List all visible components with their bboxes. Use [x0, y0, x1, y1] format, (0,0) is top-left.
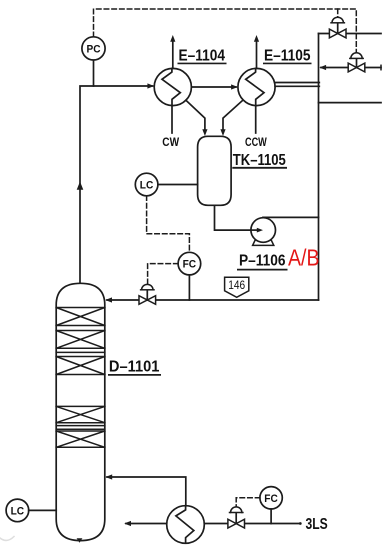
wire: reboiler liquid draw	[126, 523, 167, 525]
signal: PC to top valves (dashed)	[94, 9, 357, 53]
wire: E-1104 to E-1105	[191, 86, 236, 88]
controller FC (reflux)	[178, 252, 201, 275]
svg-text:TK–1105: TK–1105	[233, 152, 286, 169]
svg-text:CW: CW	[162, 137, 179, 149]
signal branch to valve 1 (dashed)	[337, 9, 339, 17]
heat exchanger E-1104	[154, 68, 191, 105]
svg-text:FC: FC	[264, 493, 278, 505]
svg-text:LC: LC	[11, 505, 25, 517]
wire: reboiler vapor return to column	[107, 477, 186, 506]
wire: overhead vapor line from column top up to condensers	[80, 86, 153, 284]
arrow into E-1104	[147, 83, 154, 88]
svg-text:E–1105: E–1105	[264, 48, 311, 65]
controller LC (column base)	[6, 499, 29, 522]
label P-1106	[237, 253, 288, 270]
vent line up from E-1105	[256, 42, 258, 69]
label E-1105	[263, 48, 312, 65]
svg-text:E–1104: E–1104	[179, 48, 226, 65]
wire: LC to column	[29, 509, 57, 511]
wire: main product riser	[318, 34, 320, 301]
column D-1101	[56, 283, 105, 540]
wire: top product line 1	[319, 33, 382, 35]
wire: steam line to reboiler	[204, 523, 299, 525]
svg-text:P–1106: P–1106	[239, 253, 286, 270]
packing section lines / X beds	[56, 308, 105, 448]
wire: E-1105 outlet to riser (double line)	[275, 82, 320, 84]
vessel TK-1105	[198, 136, 232, 205]
heat exchanger E-1105	[238, 68, 275, 105]
CCW outlet line below E-1105	[255, 106, 257, 134]
label D-1101	[108, 358, 161, 375]
controller PC	[82, 37, 105, 60]
wire: LC to tank	[158, 184, 198, 186]
control valve (steam)	[228, 507, 245, 528]
control valve (reflux)	[139, 284, 156, 304]
wire: top product line 2	[321, 67, 381, 69]
wire: pump discharge	[263, 216, 319, 218]
FC stem to reflux line	[188, 275, 190, 300]
pump P-1106	[251, 218, 276, 246]
signal: LC to FC (dashed)	[147, 196, 190, 253]
CW outlet line below E-1104	[171, 106, 173, 134]
svg-text:LC: LC	[140, 180, 154, 192]
label TK-1105	[232, 152, 287, 169]
signal: FC to reflux valve (dashed)	[148, 264, 179, 285]
signal: FC to steam valve (dashed)	[236, 498, 260, 507]
controller PC stem	[93, 60, 95, 86]
FC stem	[270, 509, 272, 524]
label E-1104	[178, 48, 227, 65]
vent line up from E-1104	[172, 42, 174, 69]
wire: product line off-page	[319, 102, 382, 104]
wire: E-1104 condensate to tank	[186, 100, 205, 130]
control valve 2	[348, 53, 365, 72]
wire: tank outlet to pump	[215, 205, 251, 230]
svg-text:FC: FC	[183, 259, 197, 271]
svg-text:CCW: CCW	[245, 137, 267, 149]
svg-text:A/B: A/B	[288, 245, 320, 271]
flow arrow up on overhead line	[77, 182, 84, 190]
bottoms outlet arrow	[77, 538, 83, 543]
controller FC (steam)	[260, 487, 282, 509]
control valve 1	[329, 17, 346, 38]
wire: reflux line back to column	[107, 299, 319, 301]
stray cropped arc bottom-left	[0, 537, 14, 541]
controller LC (tank)	[135, 173, 158, 196]
wire: E-1105 condensate to tank	[223, 100, 243, 130]
end tick line 2	[380, 65, 382, 69]
arrow into E-1105	[231, 84, 238, 89]
svg-text:D–1101: D–1101	[109, 358, 160, 375]
svg-text:146: 146	[228, 278, 245, 292]
reboiler E (kettle)	[167, 506, 205, 544]
instrument flag 146	[225, 277, 249, 297]
svg-text:3LS: 3LS	[306, 516, 328, 533]
svg-text:PC: PC	[87, 43, 101, 55]
